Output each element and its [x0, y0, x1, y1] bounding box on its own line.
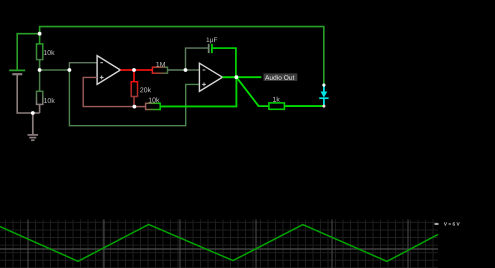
resistor R5 1M left lead — [134, 69, 152, 71]
junction node dots — [31, 32, 238, 115]
resistor R4 20k body — [131, 82, 137, 97]
wire op-amp U1 non-inverting feedback — [83, 77, 134, 106]
scope major grid vertical lines — [28, 220, 408, 268]
wire op-amp U2 inverting input from node B — [186, 69, 200, 71]
wire reference loop to op-amp U2 non-inverting input — [69, 70, 199, 126]
resistor R1 10k body — [37, 44, 43, 60]
LED D1 cathode post dot — [322, 105, 325, 108]
resistor R2 10k top lead — [39, 70, 41, 91]
op-amp U2 integrator body — [199, 63, 222, 91]
op-amp U1 non-inverting input marker — [100, 76, 104, 80]
scope horizontal axis — [0, 248, 438, 250]
scope readout text V = 6 V — [444, 222, 460, 225]
op-amp U2 inverting input marker — [203, 69, 206, 71]
wire op-amp U2 output to node — [222, 76, 236, 78]
label R5 value 1M — [156, 62, 165, 67]
wire capacitor feedback left branch — [186, 48, 209, 70]
label R6 value 1k — [273, 97, 280, 102]
LED D1 cathode lead — [323, 98, 325, 106]
resistor R3 10k body — [146, 103, 161, 109]
battery V1 negative plate — [12, 73, 22, 75]
LED D1 anode lead — [323, 85, 325, 92]
label R4 value 20k — [140, 87, 151, 92]
battery V1 positive plate — [9, 69, 25, 71]
LED D1 triangle — [321, 92, 328, 98]
op-amp U1 comparator body — [97, 56, 120, 85]
capacitor C1 left plate — [208, 44, 210, 53]
label C1 value 1uF — [207, 37, 218, 43]
resistor R6 1k body — [269, 103, 285, 109]
LED D1 anode post dot — [322, 84, 325, 87]
labeled node Audio Out text — [265, 75, 294, 80]
resistor R3 10k left lead — [134, 106, 145, 108]
capacitor C1 right plate — [211, 44, 213, 53]
labeled node Audio Out background — [264, 73, 298, 81]
scope triangle waveform trace — [0, 224, 438, 261]
LED D1 cathode bar — [319, 97, 328, 99]
wire divider mid node to branch node — [40, 69, 70, 71]
label R2 value 10k — [44, 98, 55, 103]
label R3 value 10k — [149, 97, 160, 102]
wire battery positive branch — [17, 34, 39, 70]
wire op-amp U1 output — [120, 69, 134, 71]
resistor R1 10k bottom lead — [39, 60, 41, 70]
scope right edge white tick — [435, 223, 439, 225]
resistor R3 10k right lead to output node — [160, 77, 236, 106]
resistor R1 10k top lead — [39, 34, 41, 44]
label R1 value 10k — [44, 50, 55, 55]
wire capacitor feedback right branch to output node — [212, 48, 236, 77]
wire output node to Audio Out label — [236, 76, 261, 78]
resistor R4 20k bottom lead — [133, 97, 135, 107]
resistor R2 10k bottom lead — [39, 104, 41, 113]
resistor R5 1M body — [152, 67, 167, 73]
op-amp U2 non-inverting input marker — [202, 83, 206, 87]
wire battery negative to ground rail — [17, 74, 39, 113]
wire 1k resistor to LED cathode — [284, 105, 324, 107]
scope minor grid horizontal lines — [0, 222, 438, 267]
resistor R2 10k body — [37, 91, 43, 104]
wire diagonal output node to 1k resistor — [236, 77, 269, 106]
resistor R5 1M right lead — [168, 69, 186, 71]
op-amp U1 inverting input marker — [100, 62, 103, 64]
wire top rail from R1 junction to LED anode — [40, 27, 324, 86]
wire to op-amp U1 inverting input — [69, 63, 97, 70]
scope minor grid vertical lines — [6, 220, 434, 268]
ground symbol — [28, 113, 39, 140]
resistor R4 20k top lead — [133, 70, 135, 82]
